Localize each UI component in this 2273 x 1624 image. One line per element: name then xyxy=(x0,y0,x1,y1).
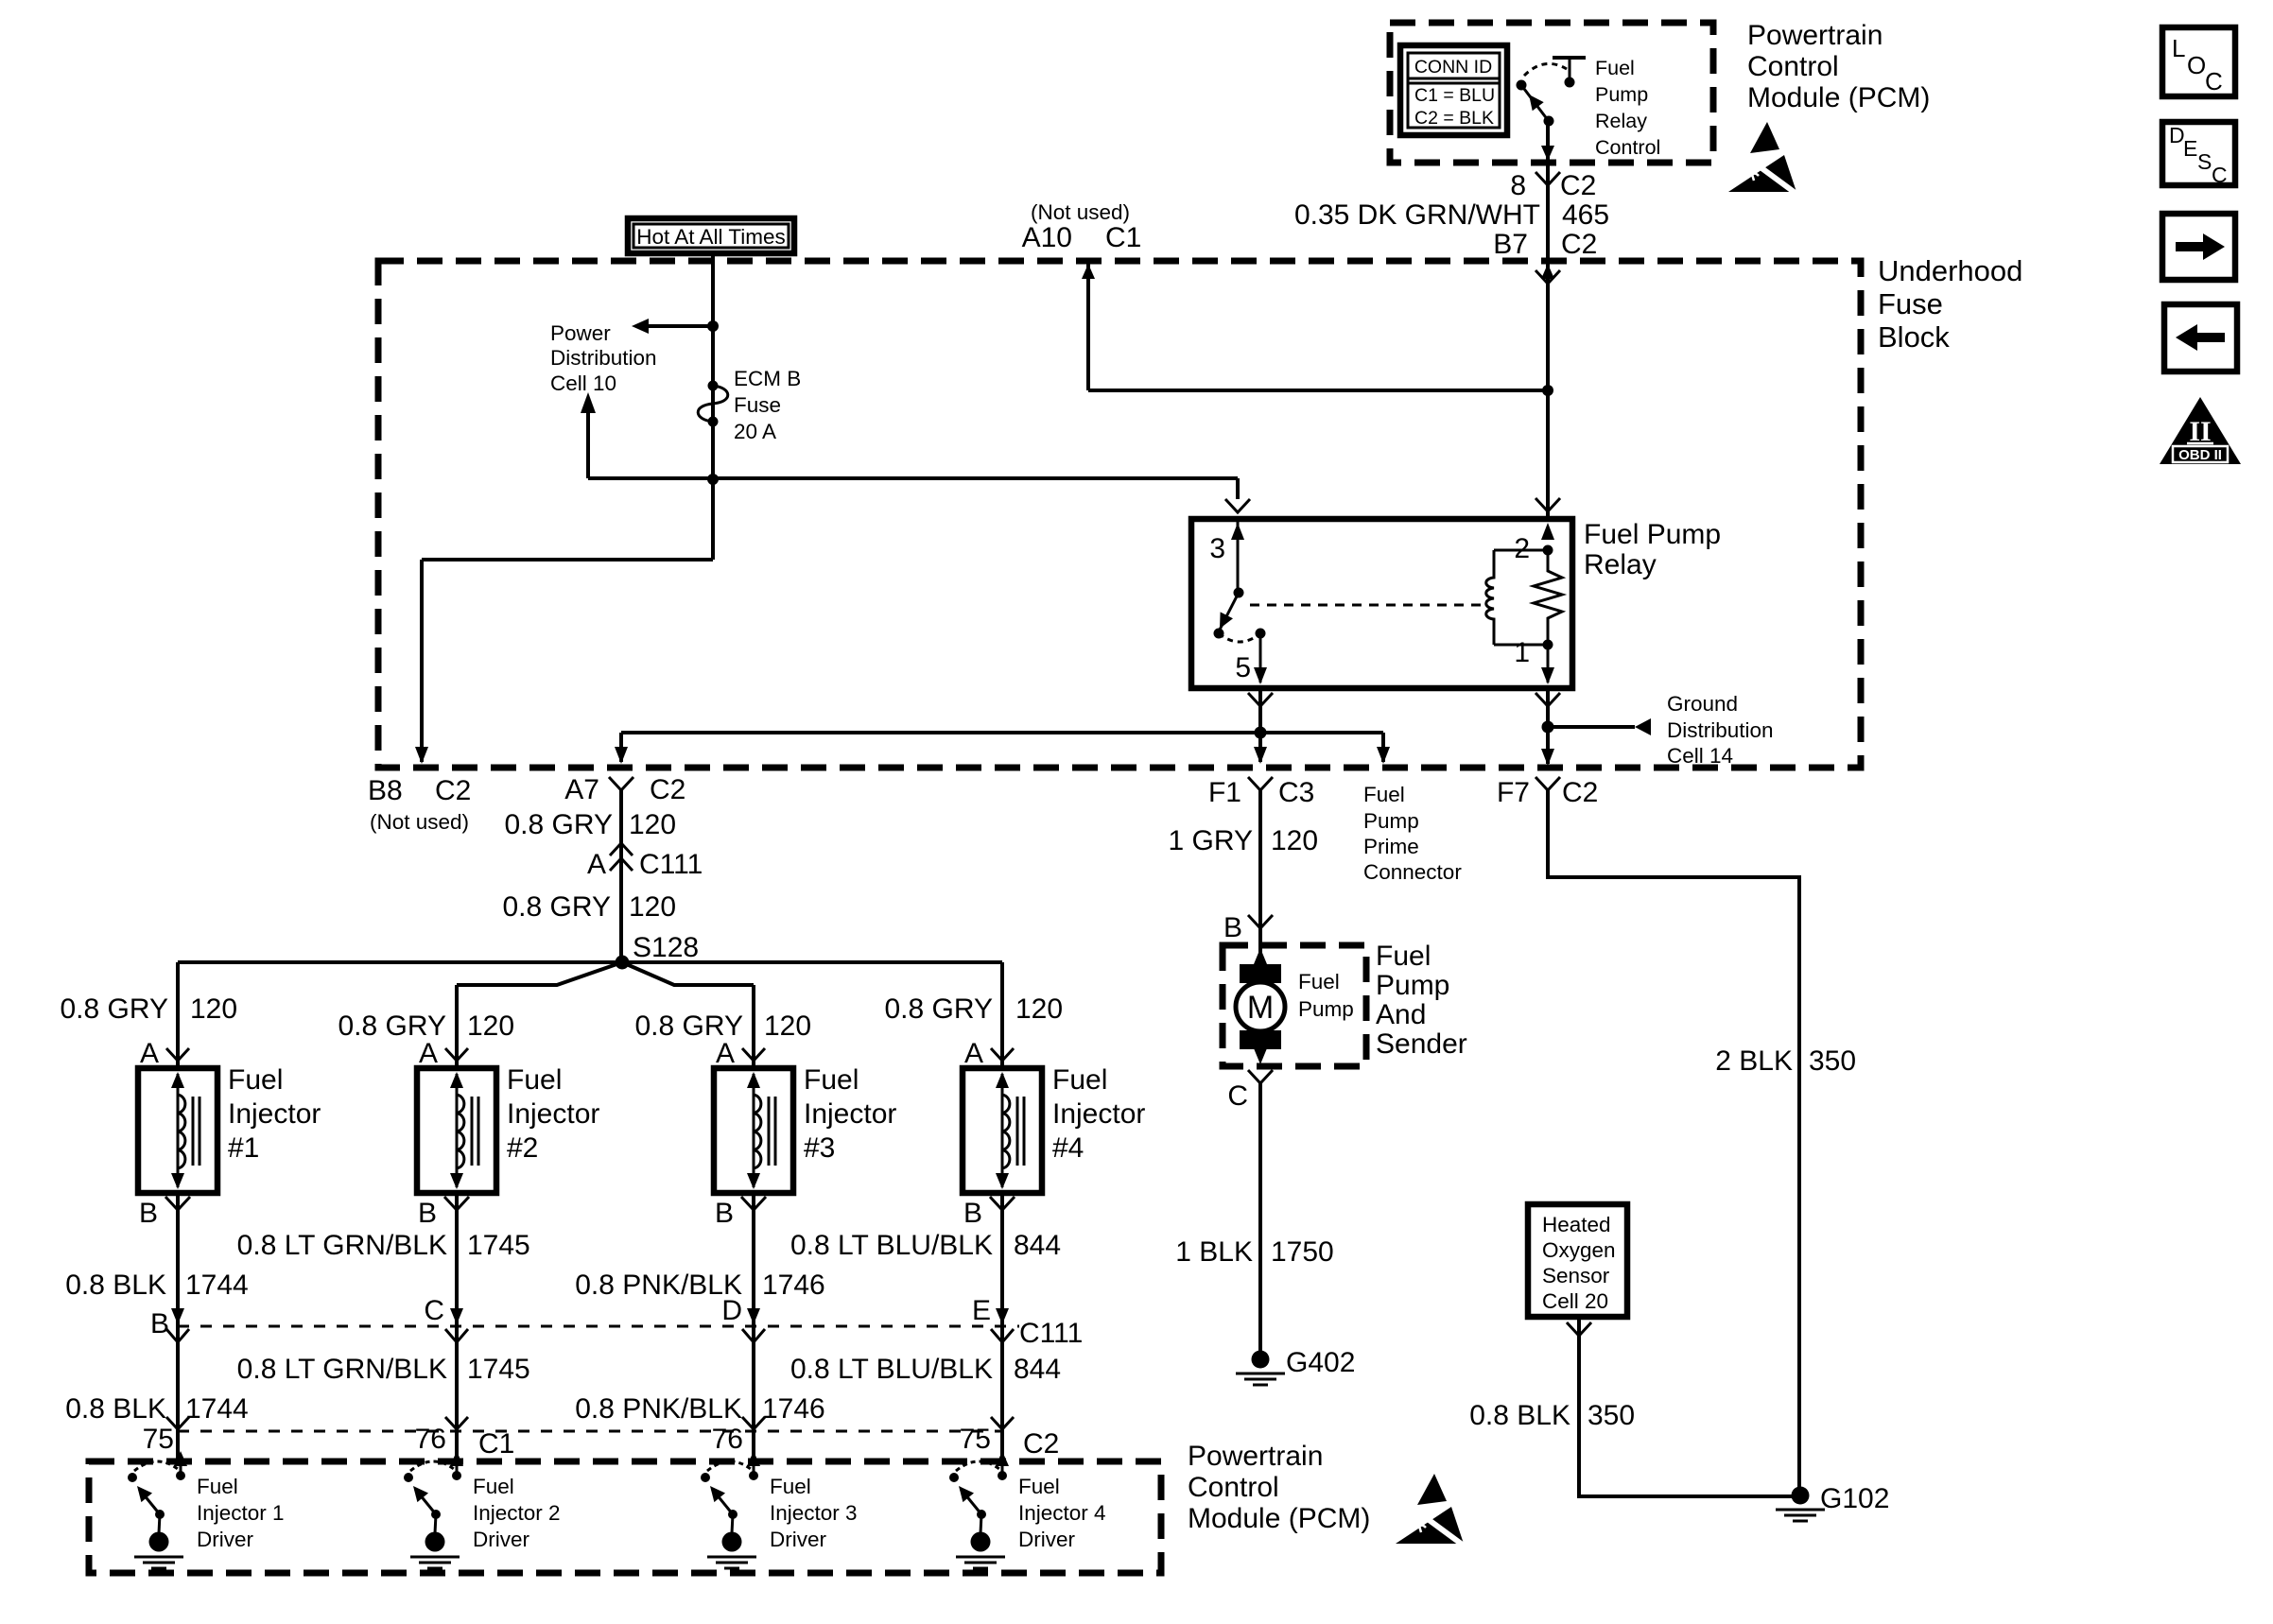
svg-text:2 BLK: 2 BLK xyxy=(1715,1045,1793,1077)
svg-text:120: 120 xyxy=(629,809,676,840)
label: A7 C2 xyxy=(564,774,685,805)
svg-text:B8: B8 xyxy=(368,775,403,806)
svg-text:C: C xyxy=(424,1295,444,1326)
svg-text:Injector: Injector xyxy=(507,1098,599,1130)
svg-text:Sender: Sender xyxy=(1376,1028,1467,1060)
label: 0.8 GRY 120 (injector 3) xyxy=(634,1011,811,1042)
label: pin 8 / C2 xyxy=(1510,170,1596,201)
svg-text:Fuel: Fuel xyxy=(228,1064,283,1096)
label: 0.8 GRY 120 (injector 4) xyxy=(884,993,1063,1025)
svg-text:Oxygen: Oxygen xyxy=(1542,1238,1616,1262)
wire: feed to relay pin 3 xyxy=(588,478,1250,512)
label: Powertrain Control Module (PCM) top xyxy=(1747,20,1930,113)
svg-text:Block: Block xyxy=(1878,320,1950,354)
svg-text:1745: 1745 xyxy=(467,1230,530,1261)
svg-text:2: 2 xyxy=(1514,533,1530,564)
svg-text:C2: C2 xyxy=(1023,1428,1059,1460)
label: B7 / C2 xyxy=(1493,229,1597,260)
svg-text:B: B xyxy=(963,1198,982,1229)
svg-text:0.8 GRY: 0.8 GRY xyxy=(504,809,613,840)
svg-text:0.35 DK GRN/WHT: 0.35 DK GRN/WHT xyxy=(1294,199,1540,231)
svg-text:0.8 PNK/BLK: 0.8 PNK/BLK xyxy=(575,1270,742,1301)
label: Powertrain Control Module (PCM) bottom xyxy=(1188,1441,1370,1534)
fuel injector 2 driver xyxy=(404,1451,561,1568)
svg-text:S128: S128 xyxy=(633,932,699,963)
svg-text:20 A: 20 A xyxy=(734,420,776,443)
wire: injector 4 B drop xyxy=(991,1193,1014,1461)
svg-text:F7: F7 xyxy=(1497,777,1530,808)
svg-text:A7: A7 xyxy=(564,774,599,805)
wire: F1 to fuel pump xyxy=(1223,790,1273,964)
relay coil (inductor) xyxy=(1486,550,1548,645)
svg-text:Control: Control xyxy=(1595,136,1660,159)
svg-text:5: 5 xyxy=(1235,652,1251,683)
svg-text:Fuel: Fuel xyxy=(1595,57,1635,79)
svg-text:0.8 BLK: 0.8 BLK xyxy=(1469,1400,1570,1431)
svg-text:75: 75 xyxy=(960,1424,991,1455)
svg-text:#4: #4 xyxy=(1052,1132,1084,1164)
legend LOC box xyxy=(2162,27,2235,96)
svg-text:Driver: Driver xyxy=(1018,1528,1076,1551)
in-line connector C111 dashed line (B C D E row) xyxy=(178,1325,1019,1328)
svg-text:Fuse: Fuse xyxy=(1878,287,1943,320)
svg-text:Fuel: Fuel xyxy=(473,1475,514,1498)
svg-text:Distribution: Distribution xyxy=(1667,718,1774,742)
svg-text:Injector: Injector xyxy=(804,1098,896,1130)
svg-text:Fuel: Fuel xyxy=(1298,970,1340,993)
svg-text:C2: C2 xyxy=(1562,777,1598,808)
label: 2 BLK 350 xyxy=(1715,1045,1856,1077)
svg-text:0.8 GRY: 0.8 GRY xyxy=(502,891,611,923)
label: (Not used) A10 C1 xyxy=(1022,200,1142,253)
svg-text:ECM B: ECM B xyxy=(734,367,801,390)
svg-text:Powertrain: Powertrain xyxy=(1188,1441,1323,1472)
wire: power distribution up arrow xyxy=(581,392,596,478)
fuel pump relay box xyxy=(1191,519,1572,688)
svg-text:Injector: Injector xyxy=(228,1098,321,1130)
wire: injector 3 B drop xyxy=(742,1193,765,1461)
svg-text:Module (PCM): Module (PCM) xyxy=(1747,82,1930,113)
svg-text:1744: 1744 xyxy=(185,1393,249,1425)
svg-text:0.8 BLK: 0.8 BLK xyxy=(65,1270,166,1301)
label: 76 C1 (injector 2 pin) xyxy=(415,1424,515,1460)
relay resistor xyxy=(1534,550,1562,645)
svg-text:Powertrain: Powertrain xyxy=(1747,20,1883,51)
wire: relay pin 1 to ground distribution junction xyxy=(1536,688,1560,734)
wire: main feed from Hot At All Times xyxy=(707,253,719,560)
label: Power Distribution Cell 10 xyxy=(550,321,657,395)
label: Underhood Fuse Block xyxy=(1878,254,2022,354)
label: 0.8 LT GRN/BLK 1745 (upper) xyxy=(237,1230,530,1261)
svg-text:C: C xyxy=(2205,67,2223,95)
svg-text:#1: #1 xyxy=(228,1132,259,1164)
svg-text:Driver: Driver xyxy=(473,1528,530,1551)
svg-text:A10: A10 xyxy=(1022,222,1072,253)
wire: B8 branch xyxy=(415,560,713,764)
svg-text:L: L xyxy=(2172,34,2185,62)
svg-text:B: B xyxy=(1223,912,1242,943)
svg-text:Fuel: Fuel xyxy=(1052,1064,1107,1096)
svg-text:C2: C2 xyxy=(1561,229,1597,260)
svg-text:1 GRY: 1 GRY xyxy=(1169,825,1254,856)
svg-text:C1: C1 xyxy=(1105,222,1141,253)
label: F7 C2 xyxy=(1497,777,1598,808)
svg-text:844: 844 xyxy=(1014,1354,1061,1385)
fuel injector #3 xyxy=(714,1038,896,1229)
svg-text:Pump: Pump xyxy=(1595,83,1648,106)
wire: fuel pump prime connector exit xyxy=(1377,733,1390,764)
svg-text:C2 = BLK: C2 = BLK xyxy=(1414,108,1494,129)
fuel pump motor M xyxy=(1236,948,1285,1064)
svg-text:120: 120 xyxy=(1271,825,1318,856)
svg-text:Sensor: Sensor xyxy=(1542,1264,1610,1287)
svg-text:1744: 1744 xyxy=(185,1270,249,1301)
svg-text:B: B xyxy=(418,1198,437,1229)
svg-text:465: 465 xyxy=(1562,199,1609,231)
svg-text:Cell 20: Cell 20 xyxy=(1542,1289,1608,1313)
svg-text:Hot At All Times: Hot At All Times xyxy=(636,225,786,249)
label: Fuel Pump Relay xyxy=(1584,519,1721,580)
svg-text:8: 8 xyxy=(1510,170,1526,201)
svg-text:A: A xyxy=(419,1038,438,1069)
svg-text:Connector: Connector xyxy=(1363,860,1462,884)
svg-text:C2: C2 xyxy=(1560,170,1596,201)
label: Fuel Pump And Sender xyxy=(1376,941,1467,1060)
label: 0.8 GRY 120 (injector 2) xyxy=(338,1011,514,1042)
svg-text:1: 1 xyxy=(1514,637,1530,668)
wire: fuel pump C to G402 xyxy=(1227,1070,1273,1352)
wire: PCM pin 8 to B7 to relay pin 2 xyxy=(1536,121,1560,518)
label: 1 GRY 120 xyxy=(1169,825,1319,856)
svg-text:0.8 GRY: 0.8 GRY xyxy=(60,993,168,1025)
label: 0.8 LT GRN/BLK 1745 (lower) xyxy=(237,1354,530,1385)
svg-text:A: A xyxy=(587,849,606,880)
PCM connector dashed line (75 76 row) xyxy=(178,1430,1002,1433)
svg-text:S: S xyxy=(2197,149,2212,174)
svg-text:350: 350 xyxy=(1809,1045,1856,1077)
wire: A7 drop to splice S128 xyxy=(610,790,633,962)
svg-text:Prime: Prime xyxy=(1363,835,1419,858)
svg-text:C: C xyxy=(1227,1080,1248,1112)
svg-text:#3: #3 xyxy=(804,1132,835,1164)
svg-text:G402: G402 xyxy=(1286,1347,1355,1378)
label: 75 C2 (injector 4 pin) xyxy=(960,1424,1060,1460)
label: 0.8 GRY 120 (A7 lower) xyxy=(502,891,676,923)
svg-text:Power: Power xyxy=(550,321,611,345)
svg-text:E: E xyxy=(2183,136,2197,161)
svg-text:C1 = BLU: C1 = BLU xyxy=(1414,85,1495,106)
svg-text:C111: C111 xyxy=(1019,1318,1083,1349)
fuel injector 4 driver xyxy=(949,1451,1106,1568)
label: Fuel Pump Relay Control xyxy=(1595,57,1660,159)
svg-text:Ground: Ground xyxy=(1667,692,1738,716)
wire: F7 exit xyxy=(1536,727,1560,790)
wire: injector 1 B drop xyxy=(166,1193,189,1461)
svg-text:Pump: Pump xyxy=(1376,970,1449,1001)
svg-text:Fuel: Fuel xyxy=(197,1475,238,1498)
svg-text:Injector 4: Injector 4 xyxy=(1018,1501,1106,1525)
wire: relay pin 5 to junction xyxy=(1248,688,1273,739)
svg-text:Fuel: Fuel xyxy=(1376,941,1431,972)
svg-text:C1: C1 xyxy=(478,1428,514,1460)
legend left-arrow box xyxy=(2164,304,2237,371)
svg-text:O: O xyxy=(2187,51,2206,79)
svg-text:0.8 LT GRN/BLK: 0.8 LT GRN/BLK xyxy=(237,1354,447,1385)
svg-text:C2: C2 xyxy=(650,774,685,805)
svg-text:M: M xyxy=(1247,990,1274,1026)
label: 0.8 GRY 120 (injector 1) xyxy=(60,993,237,1025)
label: 0.8 PNK/BLK 1746 (lower) xyxy=(575,1393,825,1425)
svg-text:#2: #2 xyxy=(507,1132,538,1164)
svg-text:Distribution: Distribution xyxy=(550,346,657,370)
svg-text:1746: 1746 xyxy=(762,1270,825,1301)
label: 0.35 DK GRN/WHT 465 xyxy=(1294,199,1609,231)
svg-text:120: 120 xyxy=(190,993,237,1025)
svg-text:Fuel: Fuel xyxy=(804,1064,859,1096)
svg-text:0.8 LT BLU/BLK: 0.8 LT BLU/BLK xyxy=(790,1230,993,1261)
wire: A7 exit xyxy=(609,733,633,790)
svg-text:Cell 10: Cell 10 xyxy=(550,371,616,395)
svg-text:120: 120 xyxy=(764,1011,811,1042)
svg-text:Module (PCM): Module (PCM) xyxy=(1188,1503,1370,1534)
underhood fuse block dashed box xyxy=(378,261,1861,768)
svg-text:OBD II: OBD II xyxy=(2178,447,2222,463)
powertrain control module (PCM) dashed box bottom xyxy=(89,1461,1161,1573)
label: 0.8 LT BLU/BLK 844 (upper) xyxy=(790,1230,1061,1261)
label: ECM B Fuse 20 A xyxy=(734,367,801,443)
fuel injector #4 xyxy=(963,1038,1145,1229)
svg-text:Driver: Driver xyxy=(197,1528,254,1551)
svg-text:0.8 GRY: 0.8 GRY xyxy=(884,993,993,1025)
svg-text:B7: B7 xyxy=(1493,229,1528,260)
label: 0.8 BLK 1744 (upper) xyxy=(65,1270,249,1301)
svg-text:Driver: Driver xyxy=(770,1528,827,1551)
svg-text:844: 844 xyxy=(1014,1230,1061,1261)
svg-text:Relay: Relay xyxy=(1584,549,1657,580)
wire: A10 (not used) branch xyxy=(1082,263,1548,390)
svg-text:75: 75 xyxy=(143,1424,174,1455)
label: 0.8 GRY 120 (A7 upper) xyxy=(504,809,676,840)
relay pin 5 internal xyxy=(1235,633,1267,684)
svg-text:E: E xyxy=(972,1295,991,1326)
svg-text:G102: G102 xyxy=(1820,1483,1889,1514)
svg-text:Fuel: Fuel xyxy=(1018,1475,1060,1498)
svg-text:And: And xyxy=(1376,999,1426,1030)
fuel pump and sender dashed box xyxy=(1223,945,1366,1066)
label: 0.8 BLK 1744 (lower) xyxy=(65,1393,249,1425)
svg-text:Injector 2: Injector 2 xyxy=(473,1501,561,1525)
svg-text:0.8 BLK: 0.8 BLK xyxy=(65,1393,166,1425)
legend right-arrow box xyxy=(2162,214,2235,280)
label: Fuel Pump (motor) xyxy=(1298,970,1354,1021)
svg-text:1746: 1746 xyxy=(762,1393,825,1425)
wire: power distribution left arrow xyxy=(632,319,713,334)
svg-text:Injector 3: Injector 3 xyxy=(770,1501,858,1525)
svg-text:Control: Control xyxy=(1188,1472,1279,1503)
label: 1 BLK 1750 xyxy=(1175,1236,1333,1268)
svg-text:Fuel: Fuel xyxy=(507,1064,562,1096)
svg-text:Fuel: Fuel xyxy=(770,1475,811,1498)
svg-text:120: 120 xyxy=(467,1011,514,1042)
Hot At All Times box xyxy=(628,218,794,253)
svg-text:76: 76 xyxy=(712,1424,743,1455)
svg-text:Relay: Relay xyxy=(1595,110,1647,132)
svg-text:C3: C3 xyxy=(1278,777,1314,808)
svg-text:B: B xyxy=(150,1308,169,1339)
svg-text:0.8 LT BLU/BLK: 0.8 LT BLU/BLK xyxy=(790,1354,993,1385)
relay pin 2 internal xyxy=(1514,523,1554,564)
svg-text:A: A xyxy=(716,1038,735,1069)
svg-text:CONN ID: CONN ID xyxy=(1414,57,1492,78)
relay pin 3 internal xyxy=(1209,519,1244,598)
wire: injector feed bus xyxy=(178,962,1002,1066)
fuel injector 3 driver xyxy=(701,1451,858,1568)
svg-text:F1: F1 xyxy=(1208,777,1241,808)
svg-text:3: 3 xyxy=(1209,533,1225,564)
svg-text:B: B xyxy=(139,1198,158,1229)
svg-text:Pump: Pump xyxy=(1298,997,1354,1021)
label: B8 C2 (Not used) xyxy=(368,775,471,834)
splice S128 xyxy=(616,956,630,970)
svg-text:A: A xyxy=(140,1038,159,1069)
label: A C111 in-line connector xyxy=(587,849,703,880)
ESD sensitive-device symbol top xyxy=(1728,122,1796,194)
svg-text:76: 76 xyxy=(415,1424,446,1455)
svg-text:Fuel Pump: Fuel Pump xyxy=(1584,519,1721,550)
svg-text:120: 120 xyxy=(1015,993,1063,1025)
fuse ECM B 20 A xyxy=(698,381,728,427)
svg-text:B: B xyxy=(715,1198,734,1229)
wire: junction to A7 and fuel pump prime connector xyxy=(621,731,1383,734)
svg-text:(Not used): (Not used) xyxy=(370,810,469,834)
svg-text:C: C xyxy=(2212,163,2228,187)
label: Fuel Pump Prime Connector xyxy=(1363,783,1462,884)
label: 0.8 PNK/BLK 1746 (upper) xyxy=(575,1270,825,1301)
switch: fuel pump relay control driver xyxy=(1517,58,1587,127)
fuel injector #1 xyxy=(138,1038,321,1229)
svg-text:Injector: Injector xyxy=(1052,1098,1145,1130)
wire: F7 to G102 run xyxy=(1548,790,1799,1491)
svg-text:C2: C2 xyxy=(435,775,471,806)
relay internal dashed link to coil xyxy=(1250,604,1481,607)
svg-text:1 BLK: 1 BLK xyxy=(1175,1236,1253,1268)
heated oxygen sensor cell 20 box xyxy=(1528,1204,1627,1317)
svg-text:Fuel: Fuel xyxy=(1363,783,1405,806)
label: 0.8 BLK 350 xyxy=(1469,1400,1635,1431)
ground G102 xyxy=(1776,1483,1889,1521)
svg-text:Cell 14: Cell 14 xyxy=(1667,744,1733,768)
svg-text:350: 350 xyxy=(1588,1400,1635,1431)
svg-text:Pump: Pump xyxy=(1363,809,1419,833)
wire: heated oxygen sensor to G102 xyxy=(1567,1317,1792,1496)
svg-text:Heated: Heated xyxy=(1542,1213,1611,1236)
fuel injector 1 driver xyxy=(128,1451,285,1568)
svg-text:(Not used): (Not used) xyxy=(1031,200,1130,224)
wire: F1 exit xyxy=(1248,733,1273,790)
relay switch arm xyxy=(1214,593,1266,642)
svg-text:120: 120 xyxy=(629,891,676,923)
svg-text:Underhood: Underhood xyxy=(1878,254,2022,287)
wire: ground distribution cell 14 reference arrow xyxy=(1548,718,1651,735)
fuel injector #2 xyxy=(417,1038,599,1229)
label: F1 C3 xyxy=(1208,777,1314,808)
svg-text:Injector 1: Injector 1 xyxy=(197,1501,285,1525)
svg-text:1750: 1750 xyxy=(1271,1236,1334,1268)
powertrain control module (PCM) dashed box top xyxy=(1390,23,1713,163)
ESD sensitive-device symbol bottom xyxy=(1396,1474,1464,1546)
svg-text:0.8 PNK/BLK: 0.8 PNK/BLK xyxy=(575,1393,742,1425)
svg-text:Control: Control xyxy=(1747,51,1839,82)
CONN ID table xyxy=(1400,45,1507,135)
ground G402 xyxy=(1236,1347,1355,1385)
svg-text:0.8 LT GRN/BLK: 0.8 LT GRN/BLK xyxy=(237,1230,447,1261)
relay pin 1 internal xyxy=(1514,637,1554,684)
svg-text:Fuse: Fuse xyxy=(734,393,781,417)
wire: injector 2 B drop xyxy=(445,1193,468,1461)
svg-text:C111: C111 xyxy=(639,849,703,880)
svg-text:1745: 1745 xyxy=(467,1354,530,1385)
legend DESC box xyxy=(2162,122,2235,187)
legend OBD II triangle xyxy=(2160,397,2241,464)
label: 0.8 LT BLU/BLK 844 (lower) xyxy=(790,1354,1061,1385)
svg-text:A: A xyxy=(964,1038,983,1069)
label: Ground Distribution Cell 14 xyxy=(1667,692,1774,768)
